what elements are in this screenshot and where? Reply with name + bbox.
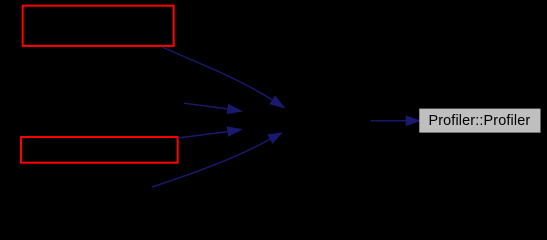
svg-text:Profiler::Profiler: Profiler::Profiler (428, 113, 530, 129)
